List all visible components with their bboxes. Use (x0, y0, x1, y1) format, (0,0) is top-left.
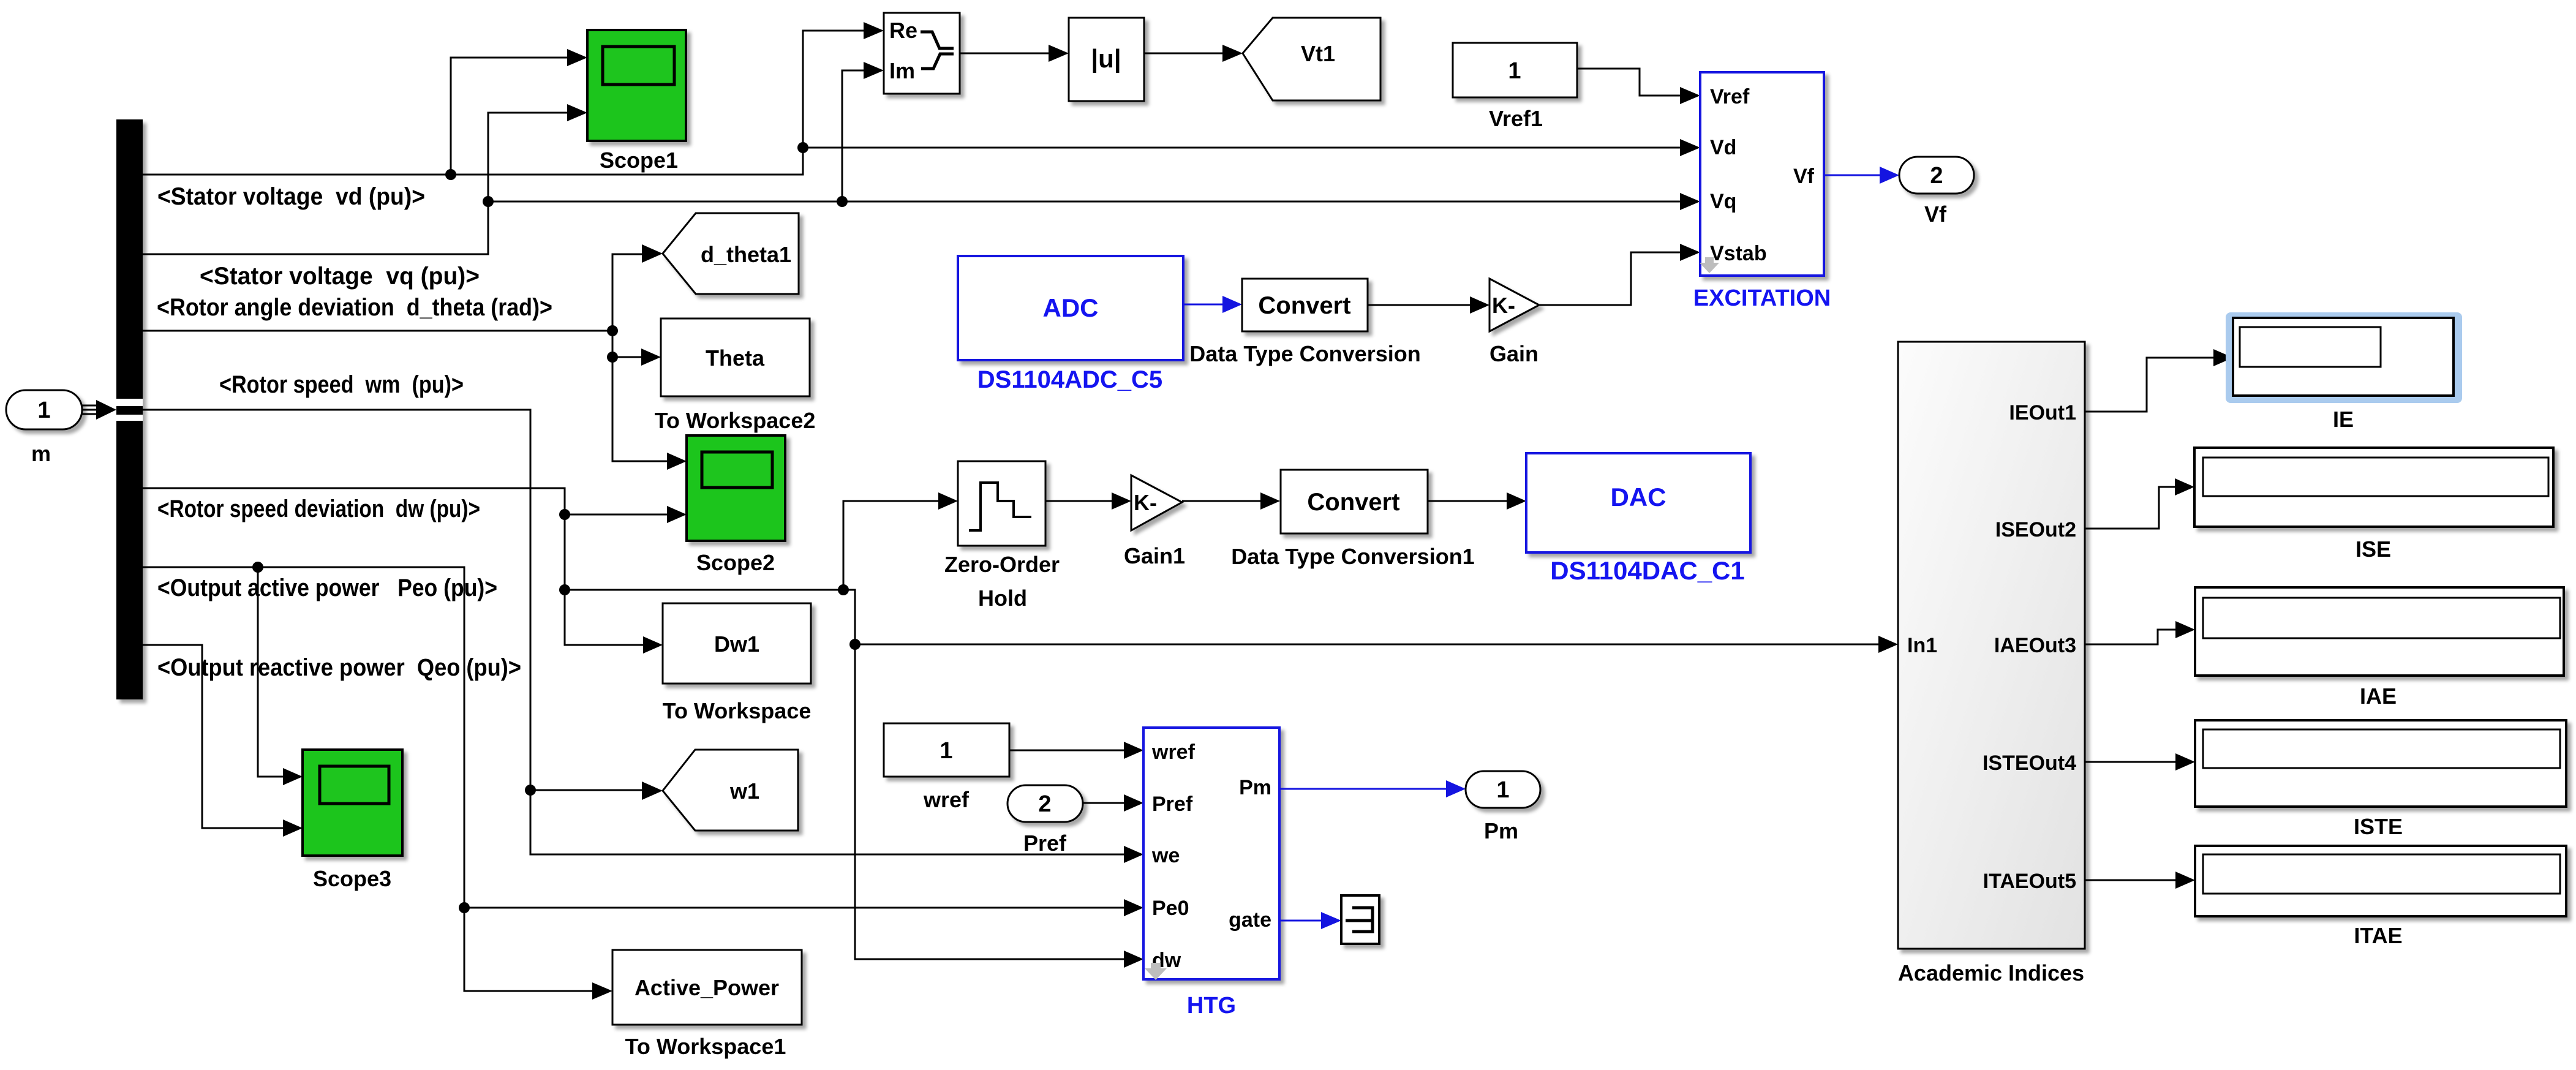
svg-text:Pref: Pref (1023, 831, 1067, 856)
wire Gain to Vstab (1539, 252, 1680, 305)
output port 1 Pm (1466, 771, 1540, 843)
wire Peo from bus (143, 567, 1124, 908)
svg-text:Vf: Vf (1924, 202, 1947, 227)
wire vq from bus (143, 202, 1680, 254)
arrow into HTG Pref (1124, 794, 1143, 812)
svg-text:DS1104DAC_C1: DS1104DAC_C1 (1550, 556, 1745, 585)
wire Convert to Gain (1368, 304, 1470, 306)
arrow into Vt1 (1222, 45, 1243, 62)
svg-text:Active_Power: Active_Power (635, 975, 779, 1000)
arrow into Scope3 in2 (283, 819, 303, 837)
svg-text:IAE: IAE (2360, 684, 2397, 709)
wire Gain1 to Convert1 (1182, 500, 1260, 502)
subsystem EXCITATION (1693, 72, 1831, 311)
output port 2 Vf (1899, 157, 1974, 227)
svg-text:1: 1 (940, 738, 952, 764)
svg-text:|u|: |u| (1091, 44, 1121, 73)
gray arrow below Vstab (1700, 257, 1719, 273)
junction wm/w1 (525, 785, 536, 796)
svg-text:EXCITATION: EXCITATION (1693, 285, 1831, 311)
arrow into w1 goto (642, 782, 663, 800)
svg-text:ISE: ISE (2356, 537, 2391, 562)
svg-text:K-: K- (1492, 293, 1515, 318)
goto tag w1 (663, 750, 798, 831)
svg-text:HTG: HTG (1187, 993, 1236, 1019)
svg-text:<Stator voltage vq (pu)>: <Stator voltage vq (pu)> (200, 263, 480, 290)
constant wref (884, 723, 1009, 812)
to-workspace Dw1 (663, 603, 812, 723)
wire wref to HTG (1009, 750, 1124, 752)
wire dw branch right to ZOH riser (565, 589, 843, 591)
svg-text:Gain1: Gain1 (1124, 543, 1185, 568)
svg-text:<Stator voltage vd (pu)>: <Stator voltage vd (pu)> (157, 183, 425, 210)
svg-text:Dw1: Dw1 (714, 631, 759, 657)
svg-text:IE: IE (2333, 407, 2354, 432)
svg-text:ADC: ADC (1043, 293, 1099, 322)
wire vd from bus (143, 31, 864, 175)
svg-text:1: 1 (1496, 777, 1509, 803)
arrow into Dw1 (643, 636, 663, 654)
wire d_theta branch down to Theta and Scope2 (612, 331, 667, 461)
svg-text:Convert: Convert (1307, 489, 1399, 516)
wire branch to Theta (612, 356, 641, 358)
block Data Type Conversion (1189, 279, 1420, 366)
junction vq/Scope1 (483, 196, 494, 207)
svg-text:1: 1 (37, 397, 50, 423)
svg-text:wref: wref (1151, 740, 1196, 764)
svg-text:Vstab: Vstab (1710, 242, 1767, 265)
svg-text:<Output active power Peo (pu: <Output active power Peo (pu)> (157, 575, 497, 601)
wire IEOut1 to IE (2085, 358, 2213, 412)
svg-text:Vq: Vq (1710, 190, 1736, 213)
arrow into Scope2 in2 (667, 506, 687, 523)
scope Scope1 (587, 30, 686, 173)
wire Qeo from bus (143, 645, 283, 828)
wire ISTEOut4 to ISTE (2085, 761, 2175, 763)
wire dw from bus (143, 488, 643, 645)
arrow into Convert1 (1260, 492, 1280, 510)
block Zero-Order Hold (944, 461, 1060, 611)
svg-text:ISEOut2: ISEOut2 (1995, 518, 2076, 541)
svg-text:<Output reactive power Qeo (p: <Output reactive power Qeo (pu)> (157, 654, 521, 681)
arrow into ZOH (938, 492, 958, 510)
wire Pref to HTG (1083, 802, 1124, 804)
svg-text:Zero-Order: Zero-Order (944, 552, 1060, 577)
wire vq branch to Scope1 in2 (488, 113, 567, 202)
wire ADC to Convert (blue) (1183, 304, 1222, 306)
svg-text:IAEOut3: IAEOut3 (1994, 634, 2076, 657)
svg-text:<Rotor speed deviation dw (pu: <Rotor speed deviation dw (pu)> (157, 495, 480, 522)
arrow into terminator (blue) (1321, 912, 1341, 929)
arrow into HTG wref (1124, 742, 1143, 759)
block DAC DS1104DAC_C1 (1526, 453, 1750, 585)
display IE (selected) (2226, 312, 2462, 432)
junction d_theta main (607, 325, 618, 336)
wire HTG Pm to port (blue) (1279, 788, 1446, 790)
arrow into Vref (1680, 87, 1700, 104)
block abs |u| (1069, 18, 1144, 101)
wire Peo branch to Active_Power (464, 908, 592, 991)
junction Peo/ActivePower (459, 902, 470, 913)
wire vd branch to Scope1 in1 (451, 58, 567, 175)
scope Scope2 (687, 435, 785, 575)
arrow into Gain1 (1112, 492, 1131, 510)
arrow into Theta (641, 349, 661, 366)
svg-text:Vref: Vref (1710, 85, 1750, 108)
svg-text:To Workspace2: To Workspace2 (655, 408, 816, 433)
wire ITAEOut5 to ITAE (2085, 880, 2175, 881)
junction vd/Scope1 (445, 169, 456, 180)
arrow into Pm port (blue) (1446, 780, 1466, 797)
wire m to bus (triple line) (82, 400, 116, 420)
svg-text:Im: Im (889, 58, 915, 83)
svg-text:wref: wref (923, 787, 970, 812)
svg-text:<Rotor angle deviation d_thet: <Rotor angle deviation d_theta (rad)> (157, 294, 552, 321)
wire dw branch to Academic In1 (855, 644, 1878, 646)
wire wm branch to w1 (530, 789, 642, 791)
wire IAEOut3 to IAE (2085, 630, 2175, 644)
svg-text:2: 2 (1930, 163, 1943, 189)
arrow into Vstab (1680, 244, 1700, 261)
junction dw/Scope2 (559, 509, 570, 520)
wire d_theta from bus (143, 254, 642, 331)
svg-text:K-: K- (1134, 490, 1157, 515)
junction d_theta/Theta (607, 352, 618, 363)
arrow into Vq (1680, 193, 1700, 210)
svg-text:Vf: Vf (1793, 165, 1815, 188)
gray arrow below HTG dw (1145, 963, 1167, 980)
display IAE (2195, 587, 2564, 709)
to-workspace Active_Power (612, 950, 802, 1059)
wire Convert1 to DAC (1428, 500, 1507, 502)
arrow into HTG Pe0 (1124, 899, 1143, 916)
wire Peo branch to Scope3 in1 (258, 567, 283, 777)
svg-text:Theta: Theta (706, 345, 765, 371)
svg-text:2: 2 (1038, 791, 1051, 817)
goto tag Vt1 (1243, 18, 1380, 100)
junction vq/Im (837, 196, 848, 207)
svg-text:Hold: Hold (978, 586, 1027, 611)
arrow into ITAE (2175, 872, 2195, 889)
display ISE (2194, 448, 2553, 562)
arrow into abs (1049, 45, 1069, 62)
arrow into IE (2213, 349, 2233, 366)
svg-text:In1: In1 (1907, 634, 1937, 657)
wire riser up to Zero-Order Hold (843, 501, 938, 590)
block ADC DS1104ADC_C5 (958, 256, 1183, 393)
terminator (1341, 895, 1379, 944)
svg-text:Data Type Conversion1: Data Type Conversion1 (1231, 544, 1474, 569)
svg-text:Pref: Pref (1152, 793, 1193, 816)
arrow into ISE (2175, 478, 2194, 495)
arrow into Scope2 in1 (667, 453, 687, 470)
wire ISEOut2 to ISE (2085, 487, 2175, 529)
svg-text:Pe0: Pe0 (1152, 897, 1189, 920)
svg-text:To Workspace1: To Workspace1 (625, 1034, 786, 1059)
arrow into Active_Power (592, 982, 612, 1000)
gain Gain (1489, 279, 1539, 366)
display ITAE (2195, 846, 2566, 948)
bus selector bar (116, 119, 143, 699)
svg-text:Scope3: Scope3 (313, 866, 391, 891)
svg-text:w1: w1 (729, 778, 759, 804)
junction dw/In1 (849, 639, 861, 650)
svg-text:Re: Re (889, 18, 917, 43)
wire HTG gate to terminator (blue) (1279, 920, 1321, 922)
wire wm from bus (143, 410, 1124, 854)
svg-text:Data Type Conversion: Data Type Conversion (1189, 341, 1420, 366)
svg-text:Vref1: Vref1 (1489, 106, 1543, 131)
svg-text:DAC: DAC (1611, 483, 1666, 511)
svg-text:<Rotor speed wm (pu)>: <Rotor speed wm (pu)> (219, 371, 464, 398)
junction dw/zoh-branch (559, 584, 570, 595)
block Real-Imag to Complex (884, 13, 960, 94)
junction vd/Vd (797, 142, 808, 153)
junction zoh riser (838, 584, 849, 595)
svg-text:IEOut1: IEOut1 (2009, 401, 2076, 424)
svg-text:ISTE: ISTE (2354, 814, 2403, 839)
arrow into DAC (1507, 492, 1526, 510)
input port 1 m (6, 390, 82, 466)
wire abs to Vt1 (1144, 53, 1222, 55)
svg-text:Vd: Vd (1710, 136, 1736, 159)
svg-text:Scope1: Scope1 (600, 148, 678, 173)
constant Vref1 (1453, 43, 1577, 131)
wire Vf to port (blue) (1824, 175, 1880, 176)
arrow into d_theta1 goto (642, 244, 663, 263)
scope Scope3 (303, 750, 402, 891)
svg-text:ISTEOut4: ISTEOut4 (1983, 752, 2076, 775)
wire dw branch to Scope2 in2 (565, 514, 667, 516)
arrow into In1 (1878, 636, 1898, 653)
gain Gain1 (1124, 475, 1185, 568)
junction Peo/Scope3 (252, 562, 263, 573)
arrow into Re (864, 22, 884, 39)
svg-text:To Workspace: To Workspace (663, 698, 812, 723)
svg-text:gate: gate (1229, 908, 1271, 932)
arrow into Vd (1680, 139, 1700, 156)
svg-text:Pm: Pm (1239, 776, 1271, 799)
arrow into Convert (blue) (1222, 296, 1242, 313)
arrow into Im (864, 62, 884, 79)
wire ZOH to Gain1 (1045, 500, 1112, 502)
arrow into Gain (1470, 296, 1489, 314)
svg-text:Convert: Convert (1258, 292, 1350, 319)
subsystem Academic Indices (1898, 342, 2085, 985)
svg-text:Scope2: Scope2 (696, 550, 775, 575)
svg-text:Vt1: Vt1 (1301, 41, 1335, 66)
to-workspace Theta (655, 318, 816, 433)
svg-text:ITAEOut5: ITAEOut5 (1983, 870, 2076, 893)
arrow into ISTE (2175, 753, 2195, 770)
svg-text:ITAE: ITAE (2354, 923, 2402, 948)
wire dw down to HTG dw (843, 590, 1124, 959)
wire Re/Im to abs (960, 53, 1049, 55)
wire vq branch to Im riser (842, 70, 864, 202)
arrow into Scope3 in1 (283, 768, 303, 785)
arrow into Scope1 in2 (567, 104, 587, 121)
wire vd branch to EXCITATION Vd (803, 147, 1680, 149)
svg-text:DS1104ADC_C5: DS1104ADC_C5 (977, 366, 1162, 393)
arrow into HTG dw (1124, 951, 1143, 968)
svg-text:d_theta1: d_theta1 (701, 242, 791, 267)
svg-text:Gain: Gain (1489, 341, 1538, 366)
arrow into HTG we (1124, 846, 1143, 863)
display ISTE (2195, 720, 2566, 839)
svg-text:we: we (1151, 844, 1180, 867)
subsystem HTG (1143, 728, 1279, 1019)
svg-text:Pm: Pm (1484, 818, 1518, 843)
svg-text:1: 1 (1508, 58, 1521, 84)
arrow into Scope1 in1 (567, 49, 587, 66)
input port 2 Pref (1007, 785, 1083, 856)
svg-text:Academic Indices: Academic Indices (1898, 960, 2084, 985)
arrow into Vf port (blue) (1880, 167, 1899, 184)
svg-text:m: m (31, 441, 51, 466)
goto tag d_theta1 (663, 213, 799, 294)
arrow into IAE (2175, 621, 2195, 638)
block Data Type Conversion1 (1231, 470, 1474, 569)
wire Vref1 to EXCITATION Vref (1577, 69, 1680, 96)
